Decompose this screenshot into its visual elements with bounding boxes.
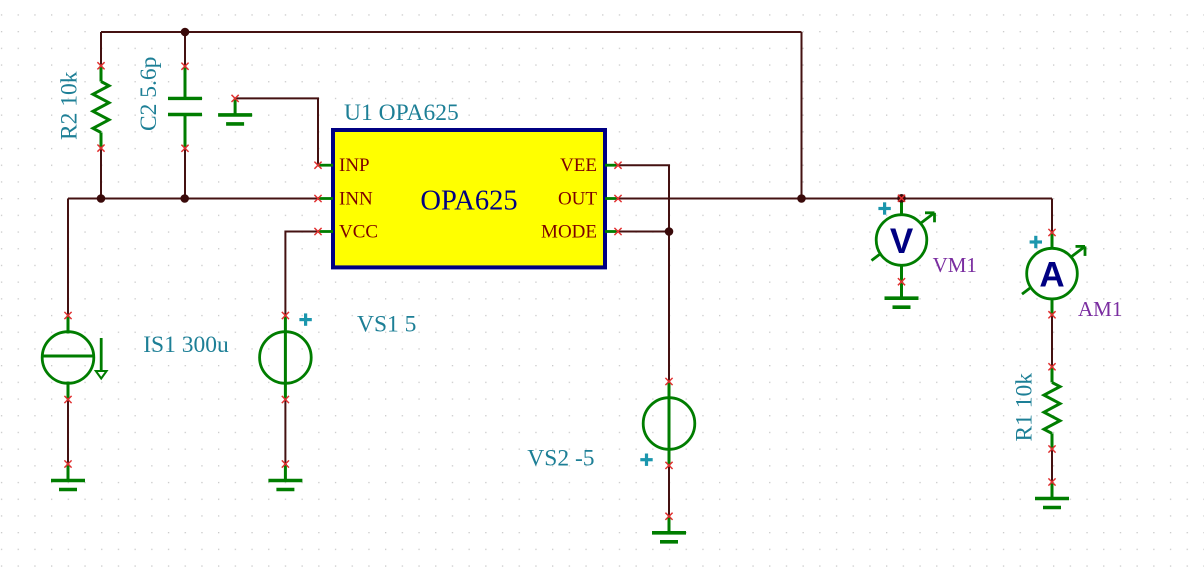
junction node top C2 tap xyxy=(181,28,190,37)
svg-text:VM1: VM1 xyxy=(933,253,977,277)
wire top feedback net xyxy=(101,31,802,33)
wire R1 to ground xyxy=(1051,449,1053,482)
svg-text:VEE: VEE xyxy=(560,155,597,176)
plus sign VM1 xyxy=(878,202,890,214)
ground below VS2 xyxy=(652,516,686,542)
op-amp U1 OPA625 block xyxy=(333,130,605,267)
pin stub INN xyxy=(318,197,333,200)
junction node MODE VEE xyxy=(665,227,674,236)
svg-text:MODE: MODE xyxy=(541,222,597,243)
svg-text:C2 5.6p: C2 5.6p xyxy=(136,57,162,131)
junction node INN R2 xyxy=(97,194,106,203)
terminal x R1 top xyxy=(1048,363,1055,370)
pin stub MODE xyxy=(605,230,618,233)
wire OUT net xyxy=(618,198,1052,200)
terminal x VS1 top xyxy=(282,312,289,319)
ground below R1 xyxy=(1035,482,1069,508)
wire INN net xyxy=(68,198,318,200)
wire AM1 to R1 xyxy=(1051,315,1053,367)
wire OUT net down to AM1 xyxy=(1051,199,1053,233)
wire INN net down to IS1 xyxy=(67,199,69,316)
terminal x pin OUT xyxy=(614,195,621,202)
wire MODE to VEE net xyxy=(618,231,669,233)
terminal x pin VEE xyxy=(614,162,621,169)
wire R2 to INN net xyxy=(100,148,102,198)
wire top to C2 xyxy=(184,32,186,66)
terminal x C2 top xyxy=(181,63,188,70)
svg-text:INP: INP xyxy=(339,155,370,176)
terminal x ground R1 xyxy=(1048,478,1055,485)
ground at INP network xyxy=(218,98,252,124)
terminal x ground VS1 xyxy=(282,460,289,467)
wire VS2 to ground xyxy=(668,465,670,516)
terminal x VS1 bottom xyxy=(282,396,289,403)
terminal x pin INP xyxy=(314,162,321,169)
terminal x pin INN xyxy=(314,195,321,202)
wire VS1 to ground xyxy=(284,400,286,465)
current source IS1 xyxy=(42,316,106,400)
svg-text:U1 OPA625: U1 OPA625 xyxy=(344,100,459,126)
pin stub OUT xyxy=(605,197,618,200)
plus sign VS1 xyxy=(299,313,311,325)
pin stub INP xyxy=(318,164,333,167)
svg-text:R1 10k: R1 10k xyxy=(1012,373,1038,442)
junction node INN C2 xyxy=(180,194,189,203)
svg-text:VS1 5: VS1 5 xyxy=(357,311,416,337)
terminal x VS2 bottom xyxy=(665,462,672,469)
voltmeter VM1 xyxy=(872,198,935,281)
svg-text:VCC: VCC xyxy=(339,222,378,243)
svg-text:AM1: AM1 xyxy=(1078,297,1122,321)
plus sign AM1 xyxy=(1030,236,1042,248)
terminal x IS1 top xyxy=(64,312,71,319)
pin stub VCC xyxy=(318,230,333,233)
terminal x R1 bottom xyxy=(1048,445,1055,452)
wire VCC to VS1 xyxy=(285,232,318,316)
resistor R1 xyxy=(1044,367,1060,449)
wire top to R2 xyxy=(100,32,102,66)
ground below VS1 xyxy=(268,464,302,490)
svg-text:IS1 300u: IS1 300u xyxy=(143,332,229,358)
terminal x ground IS1 xyxy=(64,460,71,467)
resistor R2 xyxy=(93,66,109,148)
terminal x C2 bottom xyxy=(181,145,188,152)
terminal x pin MODE xyxy=(614,228,621,235)
svg-text:OPA625: OPA625 xyxy=(420,185,517,216)
ground below IS1 xyxy=(51,464,85,490)
voltage source VS1 xyxy=(260,316,312,400)
pin stub VEE xyxy=(605,164,618,167)
junction node OUT feedback xyxy=(797,194,806,203)
terminal x VM1 bottom xyxy=(898,278,905,285)
ground below VM1 xyxy=(885,282,919,308)
svg-text:V: V xyxy=(890,222,914,261)
terminal x pin VCC xyxy=(314,228,321,235)
svg-text:A: A xyxy=(1039,256,1064,295)
terminal x AM1 top xyxy=(1048,229,1055,236)
ammeter AM1 xyxy=(1022,232,1085,315)
svg-text:INN: INN xyxy=(339,189,373,210)
terminal x ground VS2 xyxy=(665,513,672,520)
svg-text:R2 10k: R2 10k xyxy=(57,71,83,140)
wire feedback down to OUT net xyxy=(801,32,803,199)
voltage source VS2 xyxy=(643,382,695,466)
terminal x IS1 bottom xyxy=(64,396,71,403)
svg-text:OUT: OUT xyxy=(558,189,597,210)
plus sign VS2 xyxy=(640,454,652,466)
terminal x R2 top xyxy=(97,62,104,69)
terminal x R2 bottom xyxy=(97,145,104,152)
wire IS1 to ground xyxy=(67,400,69,465)
junction node OUT VM1 xyxy=(897,194,906,203)
wire ground to INP xyxy=(235,98,318,165)
terminal x ground INP net xyxy=(232,95,239,102)
terminal x AM1 bottom xyxy=(1048,311,1055,318)
capacitor C2 xyxy=(168,66,202,148)
wire C2 to INN net xyxy=(184,148,186,198)
terminal x VM1 top xyxy=(898,195,905,202)
wire VEE to VS2 xyxy=(618,165,669,381)
terminal x VS2 top xyxy=(665,378,672,385)
svg-text:VS2 -5: VS2 -5 xyxy=(527,445,594,471)
